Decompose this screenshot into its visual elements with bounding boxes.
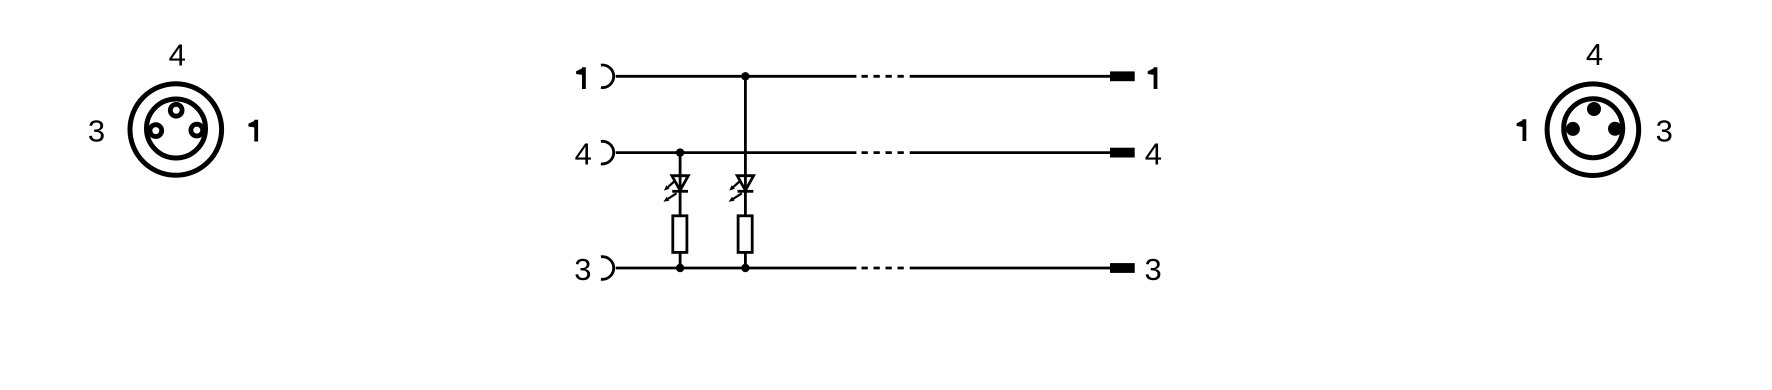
junction dot on wire 3 at branch 1 xyxy=(676,264,684,272)
connector J2 pin 4 xyxy=(1587,102,1601,116)
wire 4 left socket arc xyxy=(601,141,614,164)
wire 4 terminal block (right) xyxy=(1110,148,1135,158)
svg-text:4: 4 xyxy=(1145,137,1162,172)
connector J1 housing outer circle xyxy=(130,84,222,176)
wire 1 pin label (right) xyxy=(1148,67,1158,89)
svg-text:3: 3 xyxy=(574,252,591,287)
svg-text:4: 4 xyxy=(1586,37,1603,72)
wire 4 right solid segment xyxy=(910,151,1110,154)
resistor R2 xyxy=(738,216,752,253)
connector J1 pin label 1 xyxy=(248,120,258,142)
LED V2 emission arrow lower xyxy=(729,193,742,202)
LED V1 emission arrow upper xyxy=(664,182,674,191)
connector J2 pin 3 xyxy=(1608,122,1622,136)
LED V1 triangle xyxy=(672,176,688,191)
wire 3 dashed segment xyxy=(862,267,904,270)
wire from resistor R1 to wire 3 xyxy=(679,252,682,268)
wire 1 left socket arc xyxy=(601,65,614,88)
connector J1 housing inner circle xyxy=(147,99,206,158)
connector J1 pin 3 socket hole xyxy=(150,125,162,137)
wire 1 dashed segment xyxy=(862,75,904,78)
wire 4 dashed segment xyxy=(862,151,904,154)
wire 1 pin label (left) xyxy=(576,67,586,89)
branch wire from wire 1 to LED V2 xyxy=(744,76,747,190)
LED V1 cathode bar xyxy=(672,190,688,193)
svg-text:3: 3 xyxy=(1656,114,1673,149)
LED V2 triangle xyxy=(737,176,753,191)
wire 3 right solid segment xyxy=(910,267,1110,270)
LED V2 emission arrow upper xyxy=(729,182,739,191)
connector J2 housing inner circle xyxy=(1564,99,1623,158)
wire from LED V2 to resistor R2 xyxy=(744,191,747,216)
svg-text:4: 4 xyxy=(575,137,592,172)
connector J2 pin 1 xyxy=(1566,122,1580,136)
svg-text:4: 4 xyxy=(169,38,186,73)
junction dot on wire 3 at branch 2 xyxy=(741,264,749,272)
junction dot on wire 1 at branch 2 xyxy=(741,72,749,80)
wire 1 terminal block (right) xyxy=(1110,71,1135,81)
wire 3 left socket arc xyxy=(601,257,614,280)
resistor R1 xyxy=(673,216,687,253)
connector J1 pin 4 socket hole xyxy=(170,104,182,116)
wire from resistor R2 to wire 3 xyxy=(744,252,747,268)
svg-text:3: 3 xyxy=(1144,252,1161,287)
wire 3 terminal block (right) xyxy=(1110,263,1135,273)
wire 1 right solid segment xyxy=(910,75,1110,78)
wire 3 left solid segment xyxy=(616,267,857,270)
LED V2 cathode bar xyxy=(738,190,754,193)
branch wire from wire 4 to LED V1 xyxy=(679,153,682,190)
connector J2 housing outer circle xyxy=(1547,84,1639,176)
wire 4 left solid segment xyxy=(616,151,857,154)
connector J1 pin 1 socket hole xyxy=(191,124,203,136)
junction dot on wire 4 at branch 1 xyxy=(676,148,684,156)
wire 1 left solid segment xyxy=(616,75,857,78)
connector J2 pin label 1 xyxy=(1517,119,1527,141)
svg-text:3: 3 xyxy=(88,114,105,149)
LED V1 emission arrow lower xyxy=(663,193,676,202)
wire from LED V1 to resistor R1 xyxy=(679,191,682,216)
